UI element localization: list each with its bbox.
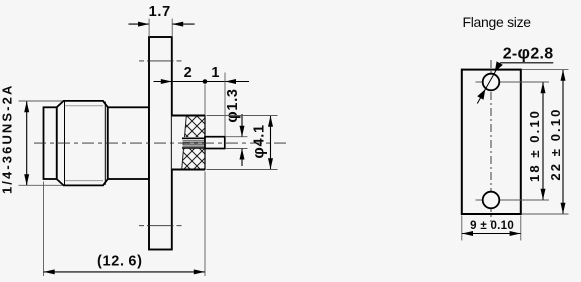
bottom mounting hole xyxy=(483,192,500,209)
phi4.1 arrow down xyxy=(268,158,273,169)
9 dim line xyxy=(462,233,521,235)
thread dim extension line top xyxy=(19,100,63,102)
thread cylinder xyxy=(44,107,57,179)
svg-text:2-φ2.8: 2-φ2.8 xyxy=(503,42,554,62)
insulator bottom edge xyxy=(172,169,205,171)
1.7 dim line right xyxy=(172,23,194,25)
phi4.1 ext top xyxy=(207,115,278,117)
svg-text:18 ± 0.10: 18 ± 0.10 xyxy=(527,109,542,182)
flange hole centerline top (side view) xyxy=(139,60,182,62)
centerline (main axis) xyxy=(34,142,290,144)
thread dim arrow down xyxy=(24,174,29,185)
9 ext left xyxy=(461,216,463,241)
phi1.3 arrow down xyxy=(241,114,243,137)
svg-text:1.7: 1.7 xyxy=(149,4,171,20)
pin inner line bottom xyxy=(182,147,205,149)
flange hole centerline bottom (side view) xyxy=(139,225,182,227)
18 arrow down xyxy=(541,189,546,200)
1.7 extension line left xyxy=(148,19,150,37)
pin inner line 3 xyxy=(183,145,206,147)
svg-text:φ1.3: φ1.3 xyxy=(224,88,241,122)
1.7 arrow right xyxy=(138,22,149,27)
2 arrow at flange face xyxy=(161,79,172,84)
thread dim line xyxy=(26,102,28,186)
phi4.1 dim line xyxy=(270,116,272,169)
leader underline xyxy=(500,62,553,64)
9 arrow right xyxy=(510,231,521,236)
22 ext top xyxy=(522,69,569,71)
pin inner line top xyxy=(182,137,205,139)
extension line insulator face xyxy=(204,85,206,116)
18 arrow up xyxy=(541,82,546,93)
svg-text:1/4-36UNS-2A: 1/4-36UNS-2A xyxy=(0,84,15,194)
pin band clearing xyxy=(181,137,206,149)
9 ext right xyxy=(520,216,522,241)
22 arrow up xyxy=(561,70,566,81)
1.7 dim line left xyxy=(129,23,150,25)
12.6 ext left xyxy=(43,182,45,277)
svg-text:1: 1 xyxy=(211,65,220,81)
flange (side) xyxy=(149,37,172,250)
svg-text:Flange size: Flange size xyxy=(463,14,532,30)
phi1.3 ext bottom xyxy=(226,148,248,150)
leader arrow into hole upper xyxy=(492,61,503,73)
1.7 arrow left xyxy=(172,22,183,27)
phi4.1 arrow up xyxy=(268,116,273,127)
nut shine line bottom xyxy=(65,180,103,182)
svg-text:(12. 6): (12. 6) xyxy=(97,254,143,270)
junction dot xyxy=(203,79,208,84)
9 arrow left xyxy=(462,231,473,236)
pin inner line 2 xyxy=(183,140,206,142)
22 arrow down xyxy=(561,203,566,214)
center pin exposed xyxy=(205,137,225,149)
vertical centerline xyxy=(490,60,492,222)
flange plate xyxy=(462,70,521,214)
bottom hole centerline horizontal xyxy=(476,199,550,201)
insulator right edge xyxy=(204,116,206,170)
extension line pin tip xyxy=(224,73,226,137)
1.7 extension line right xyxy=(171,19,173,37)
leader diagonal line xyxy=(477,63,500,104)
2-1 dim line xyxy=(154,81,250,83)
insulator top edge xyxy=(172,115,205,117)
phi1.3 arrow up xyxy=(241,149,243,166)
1 arrow at pin tip xyxy=(225,79,236,84)
12.6 dim line xyxy=(44,271,205,273)
leader arrow lower xyxy=(477,88,488,100)
insulator boss outline xyxy=(172,116,205,170)
12.6 ext right xyxy=(204,172,206,277)
22 ext bottom xyxy=(522,213,569,215)
phi1.3 ext top xyxy=(226,136,248,138)
dielectric hatch region xyxy=(182,116,205,170)
top mounting hole xyxy=(483,74,500,91)
18 dim line xyxy=(542,82,544,199)
nut shine line top xyxy=(65,105,103,107)
pin inner slot bar xyxy=(183,142,205,145)
22 dim line xyxy=(562,70,564,214)
svg-text:22 ± 0.10: 22 ± 0.10 xyxy=(548,108,563,181)
nut chamfer line left xyxy=(64,102,66,185)
nut chamfer line right xyxy=(104,102,106,185)
thread dim arrow up xyxy=(24,101,29,112)
12.6 arrow left xyxy=(44,269,55,274)
svg-text:2: 2 xyxy=(184,65,193,81)
barrel xyxy=(108,107,149,179)
svg-text:φ4.1: φ4.1 xyxy=(251,124,268,158)
phi4.1 ext bottom xyxy=(207,169,278,171)
top hole centerline horizontal xyxy=(476,81,550,83)
svg-text:9 ± 0.10: 9 ± 0.10 xyxy=(470,220,514,232)
thread dim extension line bottom xyxy=(19,184,63,186)
12.6 arrow right xyxy=(194,269,205,274)
hex nut body xyxy=(57,101,108,185)
